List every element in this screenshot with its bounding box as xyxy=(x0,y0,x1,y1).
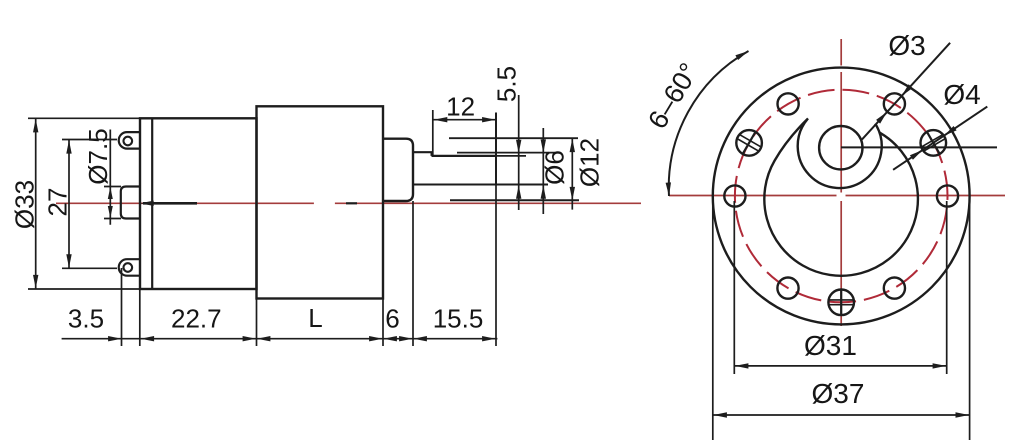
top ear tab xyxy=(119,132,140,149)
output shaft hole xyxy=(819,126,862,169)
gearbox body xyxy=(257,106,384,298)
svg-text:L: L xyxy=(308,303,322,333)
shaft flat edge xyxy=(432,155,497,157)
dim diam31 xyxy=(733,201,735,374)
svg-text:Ø33: Ø33 xyxy=(10,180,40,229)
dim 12 xyxy=(432,110,434,156)
leader diam3 xyxy=(862,43,950,140)
shaft horizontal line xyxy=(841,146,997,148)
rear bearing boss xyxy=(121,187,141,219)
mounting hole 3 xyxy=(778,93,799,114)
mounting hole 1 xyxy=(937,185,958,206)
output shaft top edge xyxy=(413,151,432,153)
face horizontal centerline xyxy=(669,195,837,197)
svg-text:Ø12: Ø12 xyxy=(575,138,605,187)
mounting hole 5 xyxy=(777,278,798,299)
gearbox screw (150 deg) xyxy=(736,130,762,156)
mounting hole 4 xyxy=(724,185,745,206)
shaft flat step xyxy=(431,152,433,156)
output bushing xyxy=(383,139,413,201)
svg-text:Ø7.5: Ø7.5 xyxy=(83,128,113,184)
bushing top extension xyxy=(449,137,578,139)
angular dim 6-60 arc xyxy=(669,51,749,196)
leader diam4 xyxy=(893,107,987,170)
bottom dimension chain extension lines xyxy=(121,268,123,346)
shaft bottom edge + extension xyxy=(413,184,548,186)
dim 5.5 xyxy=(518,95,520,210)
svg-text:Ø31: Ø31 xyxy=(804,330,857,361)
extension line over flat xyxy=(457,152,555,154)
5.5 extension over flat xyxy=(497,155,526,157)
bottom ear tab xyxy=(119,259,140,276)
bottom ear screw hole xyxy=(124,263,133,272)
svg-text:Ø4: Ø4 xyxy=(943,79,980,110)
dim diam37 xyxy=(712,196,714,440)
svg-text:5.5: 5.5 xyxy=(492,66,522,102)
svg-text:Ø37: Ø37 xyxy=(812,378,865,409)
motor body (DC motor can) xyxy=(140,118,257,289)
bushing bottom extension xyxy=(450,199,579,201)
centerline black dash + arrow xyxy=(143,202,197,205)
svg-text:22.7: 22.7 xyxy=(171,304,222,334)
dim diam33 xyxy=(28,117,140,119)
svg-text:6–60°: 6–60° xyxy=(642,58,704,134)
svg-text:12: 12 xyxy=(446,92,475,122)
dim diam12 xyxy=(571,138,573,210)
face vertical centerline xyxy=(840,39,842,66)
dim 27 xyxy=(62,139,117,141)
dim diam7.5 xyxy=(104,186,121,188)
svg-text:3.5: 3.5 xyxy=(68,304,104,334)
mounting hole 2 xyxy=(884,93,905,114)
dim diam6 xyxy=(542,128,544,214)
shaft end xyxy=(495,113,497,185)
centerline (motor axis, left view) xyxy=(56,202,314,204)
svg-text:6: 6 xyxy=(385,304,399,334)
svg-text:15.5: 15.5 xyxy=(433,304,484,334)
bottom dimension chain line xyxy=(62,338,498,340)
svg-text:27: 27 xyxy=(43,188,73,217)
svg-text:Ø3: Ø3 xyxy=(888,30,925,61)
gear cavity crescent outline xyxy=(764,119,918,276)
mounting hole 6 xyxy=(884,278,905,299)
top ear screw hole xyxy=(124,137,133,146)
gearbox screw (30 deg) xyxy=(921,130,947,156)
chain arrows xyxy=(108,336,122,341)
bolt circle (dashed red) xyxy=(735,90,948,303)
gearbox face outer circle xyxy=(713,68,970,325)
svg-text:Ø6: Ø6 xyxy=(540,150,570,185)
gearbox screw (270 deg) xyxy=(828,290,854,316)
motor rear cap seam xyxy=(151,118,153,289)
